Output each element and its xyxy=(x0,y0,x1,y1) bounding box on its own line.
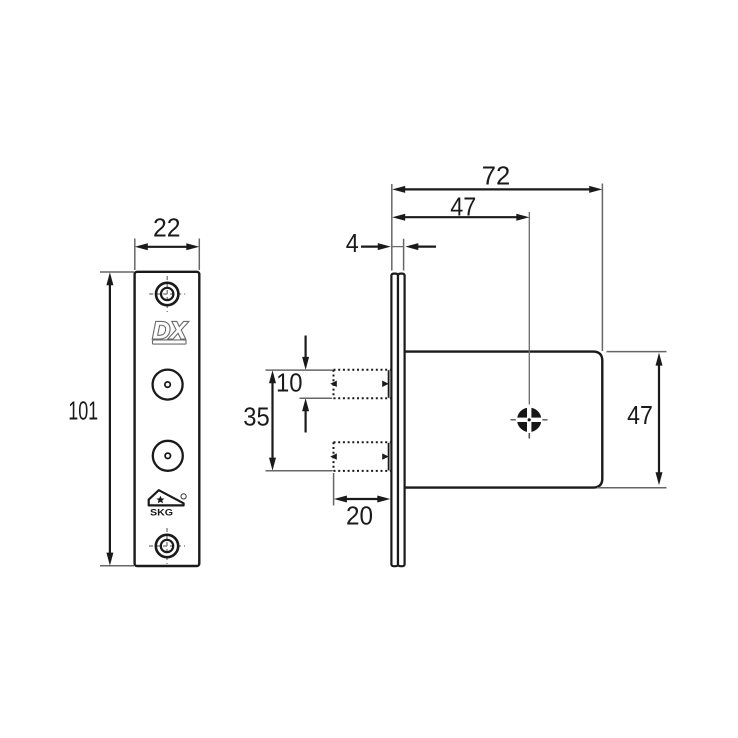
dimension 22 extension lines xyxy=(134,239,136,271)
svg-text:22: 22 xyxy=(153,213,181,243)
dimension 101 line with arrows xyxy=(109,281,111,557)
top screw hole crosshair xyxy=(149,276,185,312)
dimension 4 connecting line xyxy=(392,246,404,248)
svg-text:10: 10 xyxy=(276,368,303,398)
faceplate front view outline xyxy=(135,272,200,566)
dimension 4 right extension line xyxy=(403,239,405,271)
dimension 35 extension lines xyxy=(266,369,333,371)
lower bolt direction arrows xyxy=(330,453,337,459)
svg-text:20: 20 xyxy=(346,501,373,531)
dimension 20 extension line xyxy=(333,473,335,506)
top screw hole xyxy=(156,283,178,305)
phillips screw head xyxy=(517,408,541,432)
svg-text:101: 101 xyxy=(68,396,98,426)
lock body side view xyxy=(403,352,602,488)
dimension 101 extension ticks xyxy=(100,271,134,273)
upper bolt face bar xyxy=(388,370,390,397)
dimension 72 extension lines xyxy=(391,184,393,271)
faceplate side view right strip xyxy=(398,274,405,567)
lower bolt face bar xyxy=(388,443,390,471)
lower bolt dotted outline xyxy=(334,442,391,471)
dimension 20 line with arrows xyxy=(342,498,382,500)
dimension 10 extension line xyxy=(300,397,333,399)
upper bolt dotted outline xyxy=(334,370,391,398)
svg-text:SKG: SKG xyxy=(150,508,173,518)
phillips screw centerline vertical xyxy=(528,212,530,405)
dimension 35 line with arrows xyxy=(271,379,273,462)
phillips screw centerline horizontal xyxy=(511,419,516,421)
dimension 10 arrows xyxy=(305,336,307,359)
SKG logo xyxy=(149,490,187,517)
lower bolt hole front view xyxy=(153,441,183,471)
svg-text:4: 4 xyxy=(346,228,359,258)
dimension 47 right line with arrows xyxy=(658,361,660,477)
bottom screw hole xyxy=(156,535,178,557)
dimension 22 line with arrows xyxy=(143,246,191,248)
dimension 4 arrows xyxy=(361,246,380,248)
dimension 47 right extension lines xyxy=(607,351,667,353)
DX logo xyxy=(153,317,189,344)
upper bolt direction arrows xyxy=(330,381,337,387)
dimension 47 top line with arrows xyxy=(400,216,521,218)
svg-text:47: 47 xyxy=(627,400,653,430)
svg-text:35: 35 xyxy=(243,402,269,432)
faceplate side view left strip xyxy=(391,274,398,567)
upper bolt hole front view xyxy=(153,370,183,400)
bottom screw hole crosshair xyxy=(149,528,185,564)
svg-text:72: 72 xyxy=(482,161,511,191)
dimension 72 line with arrows xyxy=(400,188,594,190)
